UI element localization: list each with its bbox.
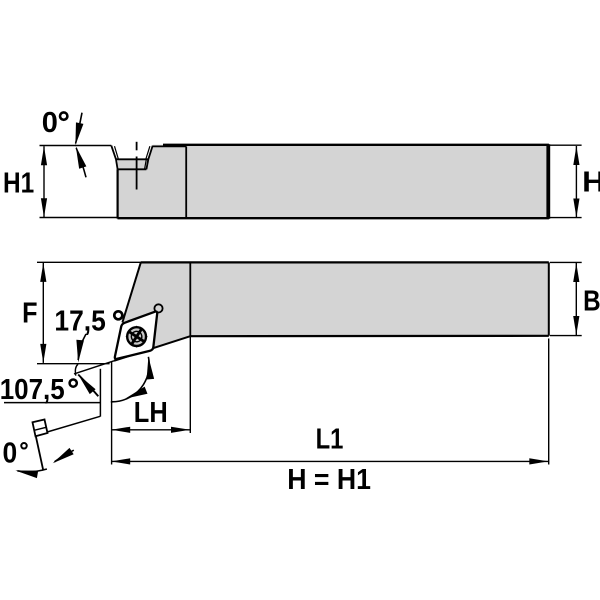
dim B bottom arrow [573, 316, 579, 335]
dim LH left arrow [111, 427, 130, 433]
17,5deg arrowhead [74, 340, 84, 363]
dim F top ext [37, 261, 141, 263]
dim B line [575, 263, 577, 335]
dim F bottom arrow [40, 344, 46, 363]
angle arc left arrowhead [124, 387, 148, 402]
svg-text:H1: H1 [3, 168, 34, 200]
wire: slant to insert [48, 416, 101, 432]
wire: horizontal reference [4, 402, 100, 404]
head front slant edge [122, 262, 140, 322]
edge line extension past tip [74, 361, 114, 374]
screw centerline upper [136, 142, 138, 151]
insert front face line [36, 437, 43, 471]
shank top edge [163, 144, 549, 146]
shank body gray fill [118, 145, 549, 219]
dim LH right arrow [171, 427, 190, 433]
dim H1 bottom arrow [41, 198, 47, 217]
screw outer circle [127, 327, 146, 346]
dim B top arrow [573, 263, 579, 282]
pocket notch white fill [111, 144, 153, 159]
0deg arc B [17, 469, 47, 472]
degree circle top 0 [60, 112, 67, 119]
0deg arc A [55, 450, 74, 462]
wire: H1 top extension line [40, 145, 112, 147]
pocket left outer slant [111, 146, 116, 160]
insert side inner line [35, 427, 47, 430]
dim L1 left arrow [111, 458, 130, 464]
pin circle behind insert [154, 304, 162, 312]
pocket lower right inner slant [145, 159, 147, 169]
0deg arc B arrowhead [15, 467, 38, 478]
degree circle bottom 0 [21, 443, 27, 449]
107,5deg connector arc [75, 364, 78, 375]
17,5deg leader curve [78, 334, 86, 360]
dim H line [575, 146, 577, 218]
dim F line [42, 263, 44, 363]
wire: L1 right extension [548, 339, 550, 465]
wire: H ext bottom [550, 217, 582, 219]
pocket lower right slant [146, 159, 148, 169]
bar top edge [141, 261, 549, 263]
screw petal arcs [130, 330, 142, 342]
degree circle 17,5 [114, 311, 122, 319]
dim H bottom arrow [573, 199, 579, 218]
dim H top arrow [573, 146, 579, 165]
svg-text:L1: L1 [316, 424, 344, 456]
pocket mid line [116, 158, 149, 160]
body left edge [116, 169, 118, 218]
0deg arc A arrowhead [51, 448, 74, 467]
degree circle 107,5 [70, 380, 77, 387]
head top edge [153, 145, 187, 147]
svg-text:H: H [582, 166, 600, 198]
screw cross recess X [129, 329, 144, 344]
right end thick edge [546, 144, 550, 219]
insert (rhombus) [115, 312, 157, 359]
screw centerline lower [136, 157, 138, 190]
dim L1 right arrow [529, 458, 548, 464]
0deg lower arrowhead [72, 145, 86, 169]
wire: H ext top [550, 144, 582, 146]
pocket left inner slant [115, 146, 119, 159]
pocket right inner slant [146, 146, 150, 159]
wire: H1 bottom extension line [40, 217, 118, 219]
head/shank boundary (plan) [189, 262, 191, 336]
107,5deg arrow tail [78, 375, 98, 397]
pocket lower left slant [116, 159, 118, 169]
wire: LH left extension [111, 362, 113, 465]
dim H1 line [43, 146, 45, 217]
svg-text:B: B [583, 286, 600, 318]
pocket right outer slant [148, 146, 152, 160]
dim L1 line [112, 460, 549, 462]
angle arc upper arrowhead [145, 356, 155, 379]
bar bottom edge [190, 335, 549, 338]
dim B top ext [550, 261, 582, 263]
svg-text:H = H1: H = H1 [287, 464, 371, 496]
head/shank boundary (top view) [185, 146, 187, 218]
0deg upper arrowhead [72, 122, 84, 146]
head bottom edge to tip [114, 336, 190, 361]
angle arc 107.5 [111, 357, 149, 402]
insert side view parallelogram [33, 420, 48, 437]
dim H1 top arrow [41, 146, 47, 165]
dim LH line [111, 429, 190, 431]
svg-text:17,5: 17,5 [54, 306, 105, 338]
svg-text:0: 0 [42, 107, 58, 139]
wire: vertical riser [99, 369, 101, 417]
107,5deg arrowhead [75, 372, 95, 394]
dim B bottom ext [550, 335, 582, 337]
bar gray fill [114, 262, 549, 360]
dim F bottom ext [37, 363, 110, 365]
pocket bottom line [118, 168, 147, 170]
svg-text:F: F [22, 298, 37, 330]
svg-text:LH: LH [134, 397, 168, 429]
wire: LH right extension [189, 337, 191, 434]
screw rim ticks [126, 326, 148, 348]
body bottom edge [118, 217, 549, 219]
svg-text:0: 0 [3, 437, 18, 469]
bar right edge [548, 262, 550, 335]
svg-text:107,5: 107,5 [0, 374, 65, 406]
0deg lower arrow tail [76, 148, 86, 177]
dim F top arrow [40, 263, 46, 282]
0deg upper arrow tail [76, 113, 82, 144]
screw head [126, 326, 148, 348]
